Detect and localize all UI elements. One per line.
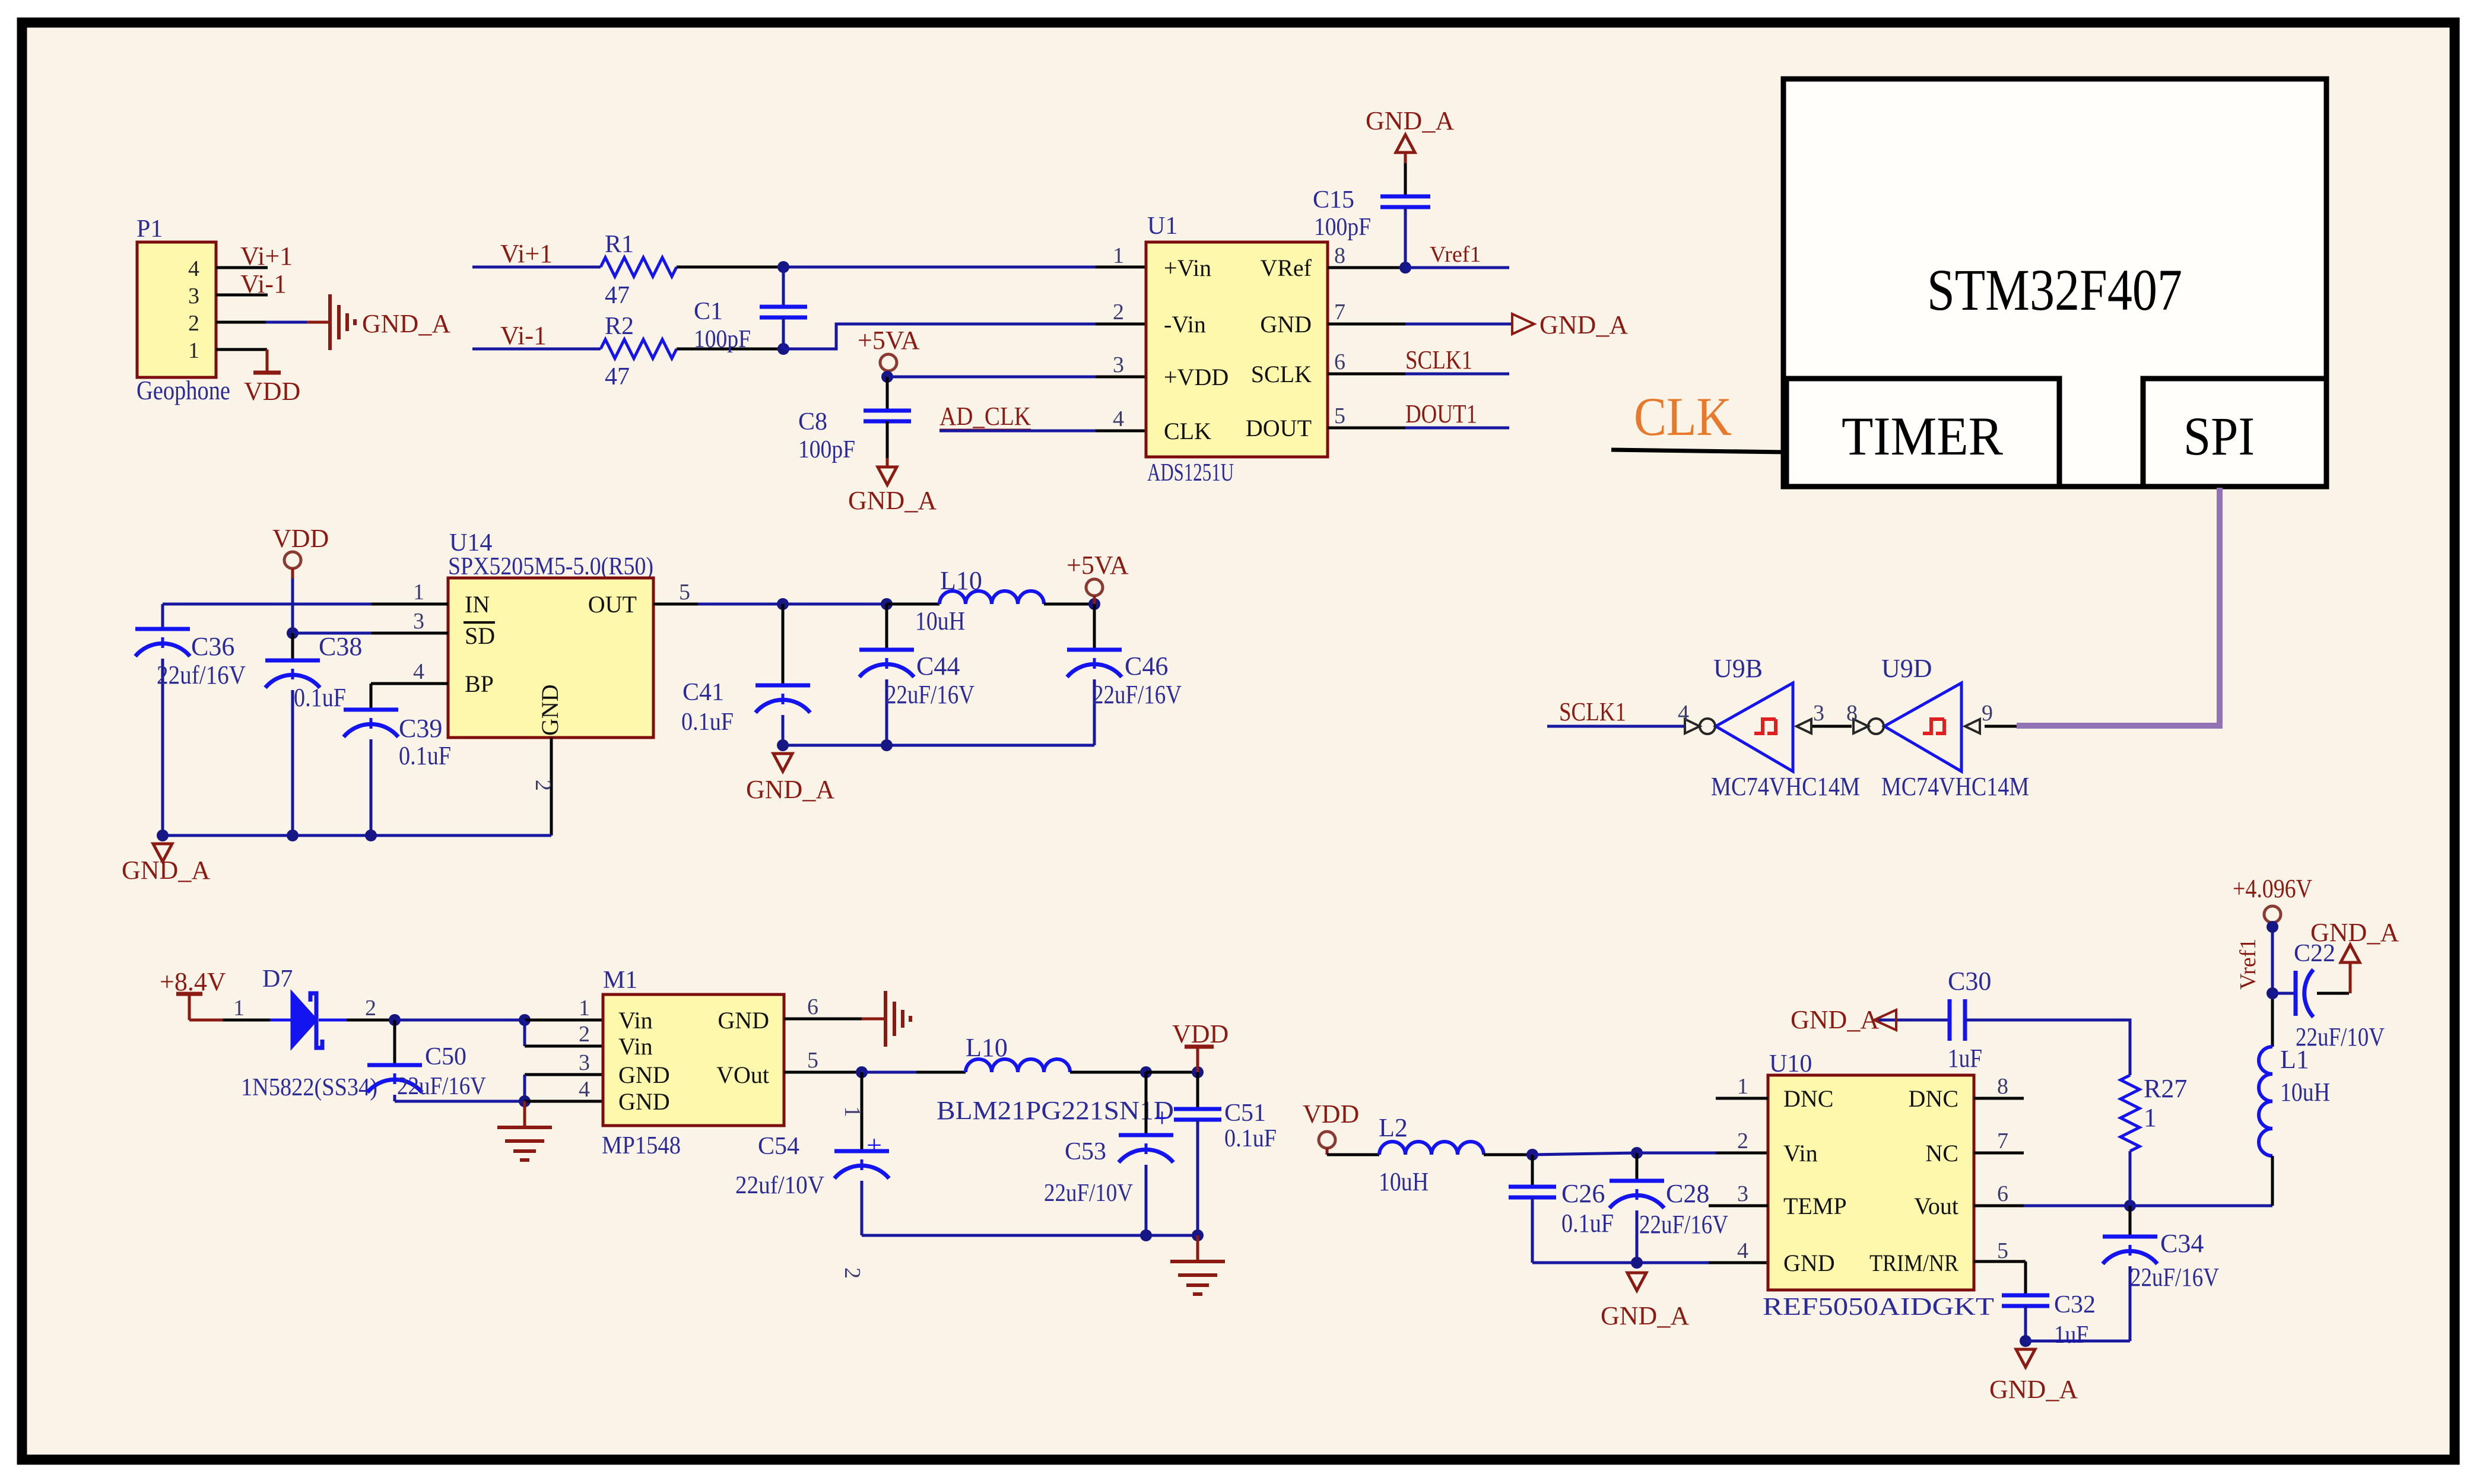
svg-text:22uf/16V: 22uf/16V — [157, 660, 246, 689]
svg-text:NC: NC — [1925, 1140, 1958, 1167]
svg-text:GND: GND — [618, 1088, 670, 1115]
svg-text:R2: R2 — [605, 313, 634, 340]
svg-text:M1: M1 — [603, 967, 637, 994]
svg-text:+5VA: +5VA — [1066, 551, 1129, 580]
svg-text:CLK: CLK — [1634, 386, 1732, 447]
svg-text:C28: C28 — [1666, 1179, 1709, 1208]
svg-text:SPX5205M5-5.0(R50): SPX5205M5-5.0(R50) — [448, 553, 653, 580]
svg-text:R27: R27 — [2144, 1074, 2187, 1103]
svg-text:GND: GND — [718, 1007, 769, 1034]
svg-text:GND_A: GND_A — [1539, 310, 1628, 339]
svg-text:U9D: U9D — [1881, 654, 1932, 683]
svg-text:AD_CLK: AD_CLK — [939, 402, 1031, 431]
svg-text:6: 6 — [1334, 349, 1345, 374]
svg-text:+: + — [866, 1130, 882, 1160]
svg-text:GND: GND — [1260, 311, 1312, 338]
svg-text:22uF/16V: 22uF/16V — [885, 680, 974, 709]
svg-text:4: 4 — [188, 256, 199, 281]
svg-text:C36: C36 — [191, 632, 234, 661]
svg-text:22uF/16V: 22uF/16V — [1093, 680, 1182, 709]
svg-text:Geophone: Geophone — [137, 375, 230, 405]
svg-text:10uH: 10uH — [2280, 1078, 2330, 1107]
svg-text:DOUT1: DOUT1 — [1405, 399, 1477, 428]
svg-text:MC74VHC14M: MC74VHC14M — [1711, 772, 1860, 801]
svg-text:8: 8 — [1334, 243, 1345, 268]
svg-text:Vi-1: Vi-1 — [500, 321, 547, 350]
svg-text:GND_A: GND_A — [1791, 1005, 1879, 1034]
svg-text:OUT: OUT — [588, 591, 637, 618]
svg-text:MP1548: MP1548 — [602, 1132, 681, 1159]
svg-text:Vin: Vin — [618, 1033, 653, 1060]
svg-text:GND_A: GND_A — [1366, 106, 1454, 135]
svg-text:22uF/16V: 22uF/16V — [1639, 1210, 1728, 1239]
svg-text:GND_A: GND_A — [848, 486, 937, 515]
svg-text:22uf/10V: 22uf/10V — [735, 1172, 824, 1199]
svg-text:4: 4 — [1678, 701, 1689, 726]
svg-text:2: 2 — [1113, 300, 1124, 325]
svg-text:SPI: SPI — [2183, 406, 2255, 466]
svg-text:SCLK1: SCLK1 — [1559, 697, 1626, 726]
svg-text:0.1uF: 0.1uF — [294, 683, 346, 712]
svg-text:VDD: VDD — [272, 524, 329, 553]
svg-text:2: 2 — [579, 1022, 590, 1047]
svg-text:GND_A: GND_A — [362, 309, 450, 338]
svg-text:TEMP: TEMP — [1783, 1193, 1847, 1219]
svg-text:GND: GND — [537, 684, 563, 736]
svg-text:C53: C53 — [1065, 1138, 1106, 1165]
svg-text:1: 1 — [2144, 1103, 2157, 1132]
svg-text:0.1uF: 0.1uF — [681, 708, 734, 736]
svg-text:4: 4 — [579, 1077, 590, 1102]
svg-text:IN: IN — [465, 591, 490, 618]
svg-text:100pF: 100pF — [798, 436, 855, 463]
svg-text:6: 6 — [1997, 1181, 2008, 1206]
svg-text:C34: C34 — [2160, 1229, 2204, 1258]
svg-text:+: + — [1154, 1102, 1170, 1133]
svg-text:8: 8 — [1997, 1074, 2008, 1099]
svg-text:Vref1: Vref1 — [1430, 242, 1481, 267]
svg-text:P1: P1 — [137, 215, 163, 243]
svg-text:3: 3 — [1737, 1181, 1748, 1206]
svg-text:+VDD: +VDD — [1164, 364, 1229, 390]
svg-text:1uF: 1uF — [1948, 1044, 1982, 1073]
svg-text:VOut: VOut — [716, 1062, 769, 1088]
svg-text:SD: SD — [465, 622, 495, 649]
svg-text:ADS1251U: ADS1251U — [1147, 459, 1234, 487]
svg-text:C50: C50 — [425, 1043, 466, 1070]
svg-text:C15: C15 — [1313, 186, 1354, 214]
svg-text:Vin: Vin — [618, 1007, 653, 1034]
svg-text:22uF/10V: 22uF/10V — [1044, 1180, 1133, 1207]
svg-text:L10: L10 — [940, 566, 982, 595]
svg-text:Vin: Vin — [1783, 1140, 1818, 1167]
svg-text:3: 3 — [188, 284, 199, 309]
svg-text:1N5822(SS34): 1N5822(SS34) — [241, 1074, 377, 1101]
svg-text:U9B: U9B — [1713, 654, 1763, 683]
svg-text:1: 1 — [1737, 1074, 1748, 1099]
svg-text:C8: C8 — [798, 408, 827, 436]
svg-text:GND: GND — [1783, 1250, 1835, 1276]
svg-text:C51: C51 — [1224, 1100, 1266, 1127]
svg-text:BP: BP — [465, 670, 494, 697]
svg-text:C46: C46 — [1125, 652, 1168, 681]
svg-text:BLM21PG221SN1D: BLM21PG221SN1D — [937, 1096, 1174, 1125]
svg-text:+Vin: +Vin — [1164, 255, 1211, 281]
svg-text:5: 5 — [679, 580, 690, 605]
svg-text:5: 5 — [807, 1048, 818, 1073]
svg-text:10uH: 10uH — [915, 606, 965, 635]
svg-text:C54: C54 — [758, 1133, 799, 1160]
svg-text:0.1uF: 0.1uF — [1224, 1125, 1277, 1152]
svg-text:3: 3 — [413, 609, 424, 634]
svg-text:DNC: DNC — [1909, 1085, 1958, 1112]
svg-text:9: 9 — [1982, 701, 1993, 726]
svg-text:GND: GND — [618, 1062, 670, 1088]
svg-text:C44: C44 — [916, 652, 960, 681]
svg-text:100pF: 100pF — [694, 326, 751, 353]
svg-text:4: 4 — [1113, 406, 1124, 431]
svg-text:1: 1 — [188, 338, 199, 363]
svg-text:3: 3 — [1113, 352, 1124, 377]
svg-text:CLK: CLK — [1164, 418, 1211, 444]
svg-text:0.1uF: 0.1uF — [399, 741, 451, 770]
svg-text:GND_A: GND_A — [2310, 918, 2399, 947]
svg-text:1uF: 1uF — [2054, 1321, 2088, 1349]
svg-text:C32: C32 — [2054, 1291, 2096, 1318]
svg-text:VDD: VDD — [1172, 1019, 1229, 1048]
svg-text:VDD: VDD — [1303, 1100, 1359, 1129]
svg-text:R1: R1 — [605, 231, 634, 258]
svg-text:Vref1: Vref1 — [2236, 939, 2261, 990]
svg-text:Vi+1: Vi+1 — [500, 239, 553, 268]
svg-text:100pF: 100pF — [1314, 214, 1371, 241]
svg-text:22uF/16V: 22uF/16V — [2130, 1263, 2219, 1292]
svg-text:DNC: DNC — [1783, 1085, 1833, 1112]
svg-text:GND_A: GND_A — [1989, 1375, 2078, 1404]
svg-text:2: 2 — [188, 311, 199, 336]
svg-text:1: 1 — [413, 580, 424, 605]
svg-text:1: 1 — [233, 996, 245, 1021]
svg-text:GND_A: GND_A — [122, 856, 210, 885]
svg-text:TRIM/NR: TRIM/NR — [1869, 1250, 1958, 1276]
svg-text:2: 2 — [1737, 1129, 1748, 1153]
svg-text:STM32F407: STM32F407 — [1927, 257, 2182, 323]
svg-text:1: 1 — [579, 996, 590, 1021]
svg-text:0.1uF: 0.1uF — [1561, 1209, 1614, 1238]
svg-text:2: 2 — [531, 780, 555, 791]
svg-text:C39: C39 — [399, 714, 442, 743]
svg-text:U1: U1 — [1147, 212, 1177, 240]
svg-text:+5VA: +5VA — [858, 326, 920, 355]
svg-text:22uF/16V: 22uF/16V — [397, 1073, 486, 1100]
svg-text:4: 4 — [413, 659, 424, 684]
svg-text:4: 4 — [1737, 1238, 1748, 1263]
svg-text:2: 2 — [365, 996, 376, 1021]
svg-text:L10: L10 — [966, 1033, 1008, 1062]
svg-text:SCLK: SCLK — [1251, 361, 1312, 387]
svg-text:TIMER: TIMER — [1842, 406, 2004, 466]
svg-text:MC74VHC14M: MC74VHC14M — [1881, 772, 2029, 801]
svg-text:GND_A: GND_A — [1601, 1301, 1689, 1330]
svg-text:D7: D7 — [262, 965, 293, 993]
svg-text:10uH: 10uH — [1379, 1167, 1429, 1196]
svg-text:C1: C1 — [694, 298, 723, 325]
svg-text:C30: C30 — [1948, 967, 1991, 996]
svg-text:7: 7 — [1997, 1129, 2008, 1153]
svg-text:1: 1 — [840, 1106, 865, 1117]
svg-text:SCLK1: SCLK1 — [1405, 345, 1472, 374]
svg-text:3: 3 — [1813, 701, 1824, 726]
svg-text:22uF/10V: 22uF/10V — [2296, 1022, 2385, 1051]
svg-text:L2: L2 — [1379, 1113, 1408, 1142]
svg-text:2: 2 — [840, 1267, 865, 1279]
svg-text:-Vin: -Vin — [1164, 311, 1206, 338]
svg-text:GND_A: GND_A — [746, 775, 834, 804]
svg-text:47: 47 — [605, 363, 630, 390]
svg-text:C38: C38 — [319, 632, 362, 661]
svg-text:VDD: VDD — [244, 377, 300, 406]
svg-text:5: 5 — [1997, 1238, 2008, 1263]
svg-text:Vout: Vout — [1914, 1193, 1958, 1219]
svg-text:C41: C41 — [683, 679, 724, 706]
svg-text:7: 7 — [1334, 300, 1345, 325]
svg-text:8: 8 — [1846, 701, 1858, 726]
svg-text:Vi+1: Vi+1 — [240, 241, 293, 271]
svg-text:U10: U10 — [1769, 1050, 1812, 1078]
svg-text:1: 1 — [1113, 243, 1124, 268]
svg-text:DOUT: DOUT — [1246, 415, 1312, 441]
svg-text:3: 3 — [579, 1050, 590, 1075]
svg-text:5: 5 — [1334, 403, 1345, 428]
svg-text:47: 47 — [605, 282, 630, 309]
svg-text:C26: C26 — [1561, 1179, 1605, 1208]
svg-text:REF5050AIDGKT: REF5050AIDGKT — [1763, 1294, 1994, 1321]
svg-text:Vi-1: Vi-1 — [240, 269, 287, 298]
svg-text:+4.096V: +4.096V — [2233, 874, 2312, 903]
svg-text:6: 6 — [807, 994, 818, 1019]
svg-text:VRef: VRef — [1260, 255, 1312, 281]
